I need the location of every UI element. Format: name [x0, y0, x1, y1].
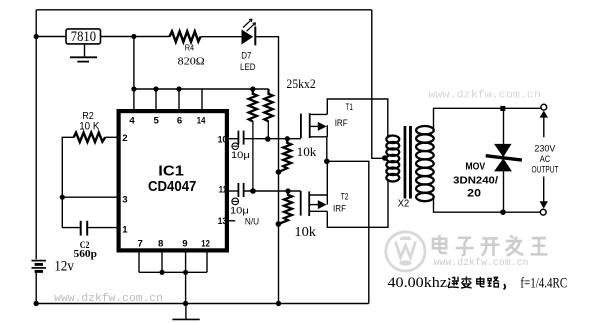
wire +12V down to transformer center tap	[372, 10, 385, 159]
node common source junction	[324, 159, 330, 165]
node pin9 bus	[183, 270, 188, 275]
LED D7	[242, 19, 256, 45]
svg-text:10 K: 10 K	[79, 121, 100, 133]
svg-text:AC: AC	[540, 154, 550, 165]
node 10k first resistor top on pin10 wire	[285, 136, 290, 141]
svg-text:T2: T2	[341, 192, 349, 202]
svg-text:10k: 10k	[297, 144, 317, 159]
node 25k first resistor bottom on pin11 wire	[250, 188, 256, 194]
wire C2 to pin1	[88, 227, 117, 229]
svg-text:11: 11	[219, 184, 228, 195]
wire R2 right to pin2	[105, 136, 116, 138]
svg-text:LED: LED	[240, 61, 256, 72]
svg-text:10k: 10k	[294, 224, 316, 239]
resistor 25k second (to pin10 wire)	[264, 89, 272, 139]
node 10k second resistor top on pin11 wire	[285, 188, 290, 193]
wire pin9 stub down	[185, 252, 187, 272]
resistor 25k first (to pin11 wire)	[249, 89, 257, 191]
wire common source rail to right and down to ground rail	[327, 161, 369, 303]
node 10k first bottom on LED ground line	[276, 169, 282, 175]
resistor 10k first (T1 gate pulldown)	[279, 139, 292, 172]
node 10k second bottom on LED ground line	[276, 221, 282, 227]
wire secondary bottom to output bottom	[434, 197, 541, 212]
svg-text:IRF: IRF	[333, 203, 347, 213]
svg-text:www.dzkfw.com.cn: www.dzkfw.com.cn	[434, 257, 529, 269]
wire pin14 stub	[201, 89, 203, 109]
svg-text:10μ: 10μ	[230, 205, 249, 216]
svg-text:10: 10	[218, 135, 227, 146]
svg-text:MOV: MOV	[465, 161, 485, 172]
resistor R4	[170, 31, 201, 41]
svg-text:12: 12	[201, 239, 210, 250]
svg-text:10μ: 10μ	[231, 149, 250, 160]
svg-text:R4: R4	[185, 44, 195, 53]
svg-text:3: 3	[122, 194, 127, 205]
watermark text top-right www.dzkfw.com.cn	[429, 90, 542, 102]
svg-text:40.00khz: 40.00khz	[388, 275, 448, 291]
svg-text:X2: X2	[398, 199, 410, 210]
wire R2 left corner down	[62, 137, 73, 227]
svg-text:820Ω: 820Ω	[178, 56, 205, 67]
wire R4 to D7	[201, 36, 242, 38]
svg-text:OUTPUT: OUTPUT	[532, 164, 559, 175]
svg-text:20: 20	[467, 188, 481, 200]
wire pin1 left segment	[62, 227, 80, 229]
svg-text:7810: 7810	[71, 29, 96, 45]
node bus pin6	[176, 86, 181, 91]
wire pin9 bus down to ground rail	[185, 272, 187, 303]
wire T1 drain up and over to transformer primary top	[327, 99, 392, 135]
node bus pin4	[131, 86, 136, 91]
node MOV top (square)	[500, 106, 505, 111]
ground symbol bottom center	[172, 304, 199, 320]
transistor Q2 T2 MOSFET	[301, 191, 328, 216]
wire pin7 stub down	[138, 252, 140, 272]
battery B1 12v	[32, 261, 47, 272]
wire pin12 stub down	[206, 252, 208, 272]
wire C3 to T1 gate	[244, 138, 301, 140]
svg-text:N/U: N/U	[245, 216, 259, 226]
svg-text:CD4047: CD4047	[148, 178, 196, 195]
svg-text:5: 5	[154, 115, 160, 126]
wire T1 source down to common source rail	[326, 137, 328, 162]
watermark hanzi 电子开发王	[433, 235, 548, 256]
output terminal top circle	[541, 104, 547, 110]
varistor MOV symbol	[486, 144, 523, 172]
node ground rail LED branch	[276, 301, 281, 306]
node MOV bottom	[500, 209, 506, 215]
resistor R2	[74, 133, 106, 142]
svg-text:12v: 12v	[54, 259, 74, 275]
wire D7 cathode to right corner and down to ground rail	[255, 37, 278, 304]
resistor 10k second (T2 gate pulldown)	[278, 191, 292, 224]
wire bottom pin bus	[139, 271, 207, 273]
svg-text:560p: 560p	[74, 249, 98, 260]
node 7810 output branch to pin4	[131, 34, 136, 39]
output arrow upper	[540, 111, 548, 138]
node battery positive rail junction	[34, 34, 39, 39]
svg-text:7: 7	[138, 239, 143, 250]
node ground rail battery	[34, 301, 39, 306]
wire pin13 stub	[229, 220, 235, 222]
node 25k second resistor bottom on pin10 wire	[265, 136, 271, 142]
node bus pin5	[153, 86, 158, 91]
wire VDD bus above IC	[134, 88, 269, 90]
transformer X2 secondary winding	[416, 126, 434, 201]
varistor MOV branch wire upper	[503, 108, 505, 144]
svg-text:www.dzkfw.com.cn: www.dzkfw.com.cn	[429, 90, 542, 102]
wire top rail +12V	[36, 9, 372, 11]
svg-text:6: 6	[177, 115, 182, 126]
svg-text:T1: T1	[346, 102, 353, 112]
capacitor C2	[81, 221, 88, 236]
svg-text:1: 1	[122, 224, 128, 235]
transistor Q1 T1 MOSFET	[301, 113, 327, 138]
node pin8 bus	[159, 270, 164, 275]
wire pin6 stub	[178, 89, 180, 109]
varistor MOV branch wire lower	[503, 171, 505, 212]
svg-text:230V: 230V	[534, 143, 556, 154]
wire pin5 stub	[155, 89, 157, 109]
polarity mark minus circle C4	[232, 198, 239, 205]
svg-text:4: 4	[129, 115, 135, 126]
transformer X2 primary winding	[386, 136, 399, 182]
wire pin10 to capacitor	[229, 138, 238, 140]
caption f=1/4.4RC latin part 2	[520, 276, 567, 292]
capacitor C4 10u on pin11	[238, 183, 243, 197]
op-amp substitute: IC U1 CD4047 body	[119, 111, 227, 250]
svg-text:IC1: IC1	[158, 162, 184, 179]
capacitor C3 10u on pin10	[238, 131, 243, 145]
wire 7810 output to R4	[101, 36, 170, 38]
watermark text bottom-left www.dzkfw.com.cn	[54, 293, 163, 305]
wire pin11 to capacitor	[229, 190, 238, 192]
wire to 7810 input	[36, 36, 66, 38]
wire secondary top to output top	[434, 108, 541, 129]
svg-text:IRF: IRF	[335, 118, 349, 128]
polarity mark minus circle C3	[232, 143, 239, 150]
svg-text:2: 2	[122, 133, 127, 144]
svg-text:3DN240/: 3DN240/	[453, 175, 498, 186]
wire to pin3	[62, 196, 116, 198]
svg-text:8: 8	[158, 239, 164, 250]
node pin3 branch	[60, 195, 65, 200]
transformer X2 core	[404, 126, 412, 199]
node transformer center tap	[382, 155, 388, 161]
svg-text:14: 14	[197, 115, 206, 126]
regulator 7810	[66, 29, 101, 45]
wire battery negative to ground rail	[35, 273, 37, 304]
svg-text:13: 13	[218, 216, 227, 227]
watermark text center www.dzkfw.com.cn	[434, 257, 529, 269]
wire pin4 stub from 12V node down to IC	[133, 37, 135, 110]
output terminal bottom circle	[540, 209, 546, 215]
wire T2 source up to common source rail	[326, 161, 328, 195]
output arrow lower	[540, 177, 548, 209]
wire T2 drain down and right to transformer primary bottom	[327, 181, 388, 227]
svg-text:9: 9	[182, 239, 187, 250]
wire left rail battery branch upper	[35, 10, 37, 259]
wire C4 to T2 gate	[244, 190, 301, 192]
node ground rail IC	[183, 301, 188, 306]
wire bottom ground rail	[36, 303, 369, 305]
caption 40.00khz latin part 1	[388, 275, 448, 291]
watermark logo circle W	[386, 232, 425, 271]
node bus 25k first resistor top	[250, 86, 255, 91]
wire pin8 stub down	[161, 252, 163, 272]
ground at 7810	[70, 44, 97, 62]
caption hanzi 逆变电路 and comma	[448, 277, 506, 290]
svg-text:25kx2: 25kx2	[286, 77, 315, 91]
svg-text:f=1/4.4RC: f=1/4.4RC	[520, 276, 567, 292]
svg-text:D7: D7	[241, 50, 251, 61]
